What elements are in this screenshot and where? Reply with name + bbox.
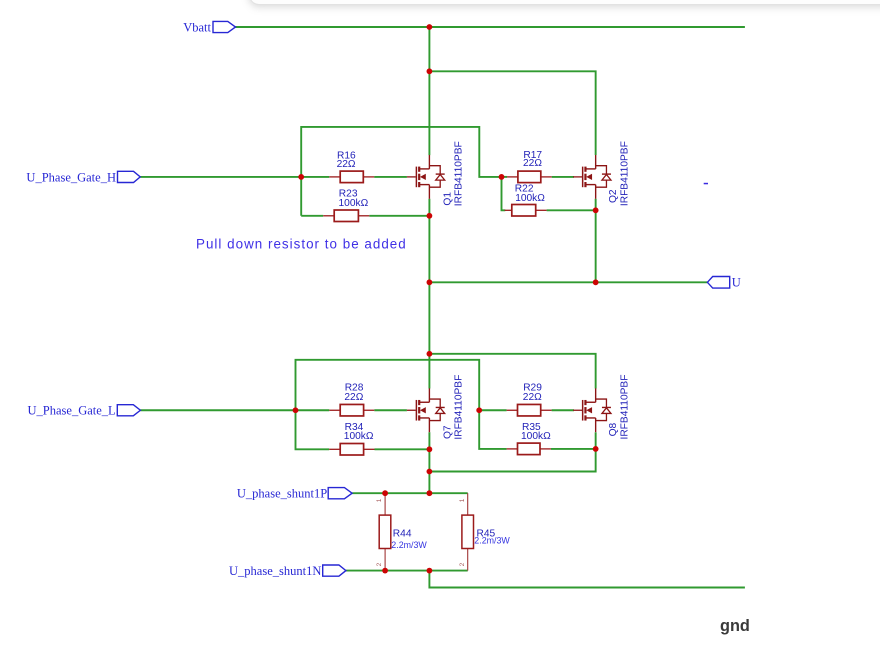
transistor Q7 (407, 388, 445, 432)
transistor Q2 (573, 155, 611, 199)
resistor R28 (329, 404, 374, 416)
svg-text:Pull down resistor to be added: Pull down resistor to be added (196, 237, 407, 252)
resistor R35 (507, 443, 551, 455)
wire R17 left from junction (502, 176, 508, 178)
wire main vertical upper (428, 27, 430, 155)
wire R23 right to junction (369, 215, 429, 217)
label U output (707, 277, 729, 289)
junction (596,210) (593, 207, 599, 213)
svg-text:U_phase_shunt1P: U_phase_shunt1P (237, 487, 327, 501)
resistor R44 shunt (379, 493, 391, 570)
wire shunt1P row (352, 492, 468, 494)
svg-text:U_Phase_Gate_H: U_Phase_Gate_H (26, 170, 116, 184)
transistor Q1 (407, 155, 445, 199)
resistor R16 (329, 171, 374, 183)
junction (295,410) (293, 407, 299, 413)
wire main vertical mid (428, 282, 430, 388)
svg-text:2.2m/3W: 2.2m/3W (391, 540, 427, 550)
svg-text:2.2m/3W: 2.2m/3W (474, 536, 510, 546)
svg-text:1: 1 (459, 498, 466, 502)
wire Q1 source down (428, 199, 430, 282)
svg-text:22Ω: 22Ω (523, 392, 542, 403)
wire Q8 source loop bottom (429, 432, 595, 471)
resistor R45 shunt (462, 493, 474, 570)
junction (429,282) (427, 279, 433, 285)
wire U_Phase_Gate_H input (140, 176, 329, 178)
svg-text:Q7: Q7 (442, 425, 453, 439)
label U_phase_shunt1P (328, 488, 352, 499)
junction (429,471) (427, 469, 433, 475)
svg-text:100kΩ: 100kΩ (344, 431, 374, 442)
junction (429,354) (427, 351, 433, 357)
svg-text:22Ω: 22Ω (344, 392, 363, 403)
wire R35 right to junction (551, 448, 596, 450)
svg-text:U: U (732, 276, 741, 290)
wire R22 left drop (502, 177, 506, 210)
wire R34 right to junction (375, 448, 430, 450)
wire bottom gnd rail (429, 571, 745, 588)
svg-text:100kΩ: 100kΩ (339, 198, 369, 209)
svg-text:22Ω: 22Ω (337, 159, 356, 170)
junction (385,493) (382, 490, 388, 496)
wire R16 to Q1 gate (374, 176, 407, 178)
wire U_Phase_Gate_L input (140, 409, 329, 411)
wire R22 right to junction (547, 209, 596, 211)
svg-text:22Ω: 22Ω (523, 158, 542, 169)
svg-text:R44: R44 (393, 529, 412, 540)
svg-text:Vbatt: Vbatt (183, 21, 211, 35)
junction (429,216) (427, 213, 433, 219)
junction (429,449) (427, 446, 433, 452)
svg-text:2: 2 (459, 562, 466, 566)
resistor R29 (507, 404, 552, 416)
svg-text:100kΩ: 100kΩ (521, 431, 551, 442)
svg-text:IRFB4110PBF: IRFB4110PBF (453, 141, 464, 206)
resistor R34 (329, 444, 374, 456)
junction (596,282) (593, 279, 599, 285)
junction (501,177) (499, 174, 505, 180)
wire Q2 source down (595, 199, 597, 282)
svg-text:IRFB4110PBF: IRFB4110PBF (453, 375, 464, 440)
wire gate H loop box (301, 127, 501, 216)
junction (429,493) (427, 490, 433, 496)
transistor Q8 (573, 388, 611, 432)
wire R23 left (301, 215, 323, 217)
toolbar panel corner (249, 0, 880, 5)
resistor R17 (507, 171, 552, 183)
wire Vbatt top rail (236, 26, 745, 28)
junction (596,449) (593, 446, 599, 452)
svg-text:100kΩ: 100kΩ (515, 193, 545, 204)
svg-text:U_Phase_Gate_L: U_Phase_Gate_L (28, 404, 116, 418)
wire Q7 source down (428, 432, 430, 493)
svg-text:1: 1 (376, 498, 383, 502)
svg-text:IRFB4110PBF: IRFB4110PBF (619, 375, 630, 440)
svg-text:Q2: Q2 (608, 189, 619, 203)
label U_Phase_Gate_L (117, 405, 140, 416)
junction (429,27) (427, 24, 433, 30)
wire mid rail to U label (429, 281, 707, 283)
junction (429,571) (427, 568, 433, 574)
wire branch to Q8 drain (429, 354, 595, 389)
junction (301,177) (298, 174, 304, 180)
label U_phase_shunt1N (323, 565, 346, 576)
svg-text:gnd: gnd (720, 617, 750, 635)
junction (429,71) (427, 68, 433, 74)
wire R35 left drop (479, 410, 506, 449)
wire R17 to Q2 gate (552, 176, 574, 178)
wire gate L loop box (296, 360, 480, 410)
svg-text:IRFB4110PBF: IRFB4110PBF (619, 141, 630, 206)
svg-text:2: 2 (376, 562, 383, 566)
wire branch to Q2 drain (429, 71, 595, 155)
resistor R22 (505, 205, 547, 217)
wire shunt1N row (346, 570, 468, 572)
label U_Phase_Gate_H (118, 171, 141, 182)
label Vbatt (213, 21, 236, 32)
svg-text:Q8: Q8 (608, 422, 619, 436)
wire R34 left drop (296, 410, 330, 449)
wire R29 row from junction (479, 409, 506, 411)
svg-text:U_phase_shunt1N: U_phase_shunt1N (229, 564, 321, 578)
svg-text:Q1: Q1 (442, 192, 453, 206)
junction (479,410) (476, 407, 482, 413)
text dash marker (704, 183, 708, 185)
wire R29 to Q8 gate (552, 409, 574, 411)
junction (385,571) (382, 568, 388, 574)
wire R28 to Q7 gate (374, 409, 407, 411)
resistor R23 (323, 210, 369, 222)
